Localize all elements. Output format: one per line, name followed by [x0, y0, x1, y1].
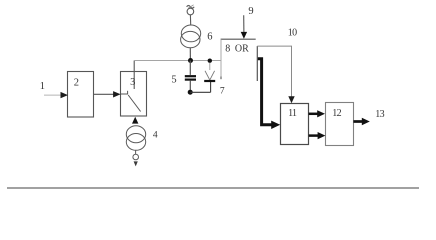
svg-text:8: 8	[225, 43, 230, 54]
svg-text:2: 2	[74, 77, 79, 88]
svg-text:3: 3	[130, 77, 135, 88]
svg-text:13: 13	[375, 109, 384, 120]
svg-text:10: 10	[288, 28, 297, 39]
svg-text:11: 11	[288, 108, 297, 119]
svg-text:5: 5	[171, 75, 176, 86]
svg-text:12: 12	[332, 108, 341, 119]
svg-text:9: 9	[248, 6, 253, 17]
svg-text:1: 1	[40, 81, 45, 92]
svg-text:7: 7	[220, 87, 225, 97]
svg-text:OR: OR	[235, 43, 249, 54]
svg-text:4: 4	[153, 130, 158, 140]
svg-text:6: 6	[207, 31, 212, 42]
